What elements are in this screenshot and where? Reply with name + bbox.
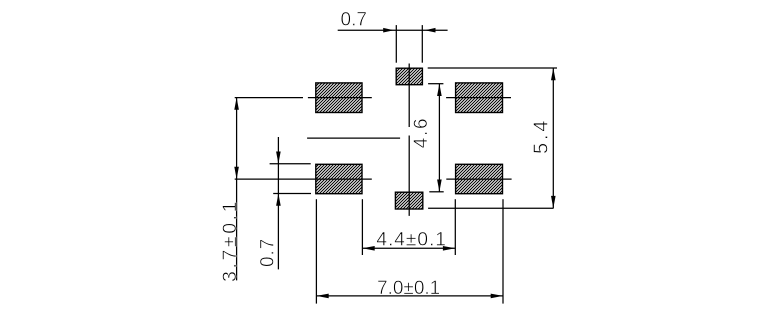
pad top-right (hatched land) (456, 83, 503, 113)
svg-text:0.7: 0.7 (341, 10, 367, 31)
pad bottom-left (hatched land) (316, 164, 362, 193)
arrowhead 4.6 up (437, 84, 442, 96)
dimension line 4.6 (438, 84, 440, 192)
arrowhead 4.4 left (points left) (362, 246, 374, 251)
extension line 4.4 right (454, 199, 456, 255)
arrowhead 0.7 top right (points left) (425, 28, 436, 33)
extension tick 4.6 top (428, 83, 443, 85)
svg-text:4.6: 4.6 (411, 117, 432, 149)
centerline vertical through small pads (408, 64, 410, 216)
svg-text:3.7±0.1: 3.7±0.1 (219, 199, 241, 282)
extension line 5.4 bottom (428, 207, 553, 209)
arrowhead 4.6 down (437, 180, 442, 192)
svg-text:7.0±0.1: 7.0±0.1 (377, 278, 440, 299)
arrowhead 4.4 right (points right) (443, 246, 455, 251)
extension tick 4.6 bottom (429, 191, 443, 193)
arrowhead 7.0 left (points left) (316, 294, 328, 299)
dimension line 3.7 (236, 98, 238, 281)
extension line small-pad right edge (0.7 top) (421, 25, 423, 63)
extension line 5.4 top (428, 67, 557, 69)
extension line left pad top edge (0.7 left) (270, 163, 311, 165)
centerline bottom pad row (235, 178, 512, 180)
extension line 4.4 left (361, 199, 363, 255)
arrowhead 5.4 up (551, 68, 556, 80)
svg-text:5.4: 5.4 (531, 118, 553, 154)
arrowhead 7.0 right (points right) (491, 294, 503, 299)
extension line 7.0 left (315, 199, 317, 303)
extension line 7.0 right (502, 199, 504, 303)
dimension line 4.4 (362, 247, 455, 249)
pad top-center small (hatched land) (396, 68, 422, 85)
arrowhead 3.7 up (234, 98, 239, 110)
dimension line 0.7 left (277, 137, 279, 269)
centerline horizontal package axis (307, 137, 400, 139)
centerline top pad row (235, 97, 511, 99)
arrowhead 0.7 left down (points down to pad top line) (276, 152, 281, 164)
extension line left pad bottom edge (0.7 left) (273, 193, 311, 195)
arrowhead 0.7 top left (points right) (383, 28, 394, 33)
dimension line 5.4 (552, 68, 554, 208)
svg-text:4.4±0.1: 4.4±0.1 (376, 229, 447, 251)
pad top-left (hatched land) (316, 83, 362, 113)
pad bottom-center small (hatched land) (395, 192, 422, 209)
dimension line 0.7 top (338, 29, 448, 31)
extension line small-pad left edge (0.7 top) (395, 25, 397, 63)
arrowhead 5.4 down (551, 196, 556, 208)
arrowhead 3.7 down (234, 167, 239, 179)
dimension line 7.0 (316, 295, 503, 297)
pad bottom-right (hatched land) (456, 164, 503, 193)
svg-text:0.7: 0.7 (258, 238, 279, 267)
arrowhead 0.7 left up (points up to pad bottom line) (276, 194, 281, 206)
